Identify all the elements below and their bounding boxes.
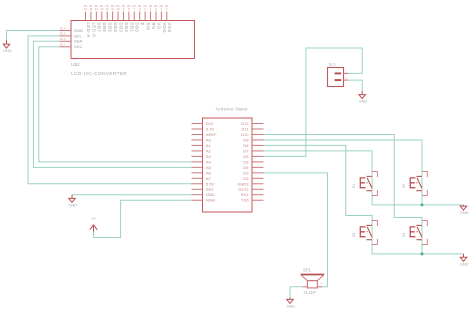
svg-text:5.5V: 5.5V xyxy=(206,181,215,186)
svg-text:D9: D9 xyxy=(243,137,249,142)
svg-text:GND: GND xyxy=(3,49,12,53)
svg-text:13: 13 xyxy=(100,7,103,11)
svg-text:DB2: DB2 xyxy=(124,23,129,33)
svg-text:DB7: DB7 xyxy=(97,23,102,33)
svg-text:D6: D6 xyxy=(243,154,249,159)
svg-text:GND: GND xyxy=(287,304,296,308)
svg-text:D13: D13 xyxy=(206,121,214,126)
svg-text:A5: A5 xyxy=(206,165,212,170)
svg-text:A7: A7 xyxy=(206,176,212,181)
svg-text:S3: S3 xyxy=(352,233,356,237)
svg-text:SDA: SDA xyxy=(74,39,83,44)
svg-text:A1: A1 xyxy=(206,143,212,148)
svg-text:VCC: VCC xyxy=(74,44,83,49)
svg-text:D1.1: D1.1 xyxy=(60,43,66,47)
svg-text:A0: A0 xyxy=(206,137,212,142)
svg-text:S2: S2 xyxy=(402,184,406,188)
svg-text:DB5: DB5 xyxy=(108,23,113,33)
svg-text:DB6: DB6 xyxy=(102,23,107,33)
svg-text:GND: GND xyxy=(460,262,469,266)
svg-text:D1.2: D1.2 xyxy=(60,37,66,41)
svg-text:GND: GND xyxy=(206,192,215,197)
svg-text:15: 15 xyxy=(89,7,92,11)
svg-text:GND: GND xyxy=(460,211,469,215)
svg-text:SP1: SP1 xyxy=(303,268,312,273)
svg-text:A6: A6 xyxy=(206,170,212,175)
svg-text:A2: A2 xyxy=(206,148,212,153)
svg-text:D8: D8 xyxy=(243,143,249,148)
svg-text:VO: VO xyxy=(156,23,161,30)
svg-text:RS: RS xyxy=(151,23,156,30)
svg-text:GND: GND xyxy=(359,100,368,104)
svg-text:VDD: VDD xyxy=(162,23,167,34)
svg-text:Arduino Nano: Arduino Nano xyxy=(216,106,248,111)
svg-text:V+: V+ xyxy=(91,217,97,221)
svg-text:RW: RW xyxy=(146,23,151,31)
svg-text:GND2: GND2 xyxy=(237,181,249,186)
svg-text:D7: D7 xyxy=(243,148,249,153)
svg-text:DB3: DB3 xyxy=(118,23,123,33)
svg-text:S4: S4 xyxy=(402,233,406,237)
svg-text:VSS: VSS xyxy=(167,23,172,33)
svg-text:SL1: SL1 xyxy=(329,62,337,67)
svg-text:D4: D4 xyxy=(243,165,249,170)
svg-text:A3: A3 xyxy=(206,154,212,159)
svg-text:DB0: DB0 xyxy=(135,23,140,33)
svg-text:D3: D3 xyxy=(243,170,249,175)
svg-text:3.3V: 3.3V xyxy=(206,126,215,131)
svg-text:RST: RST xyxy=(206,187,215,192)
svg-text:+: + xyxy=(320,282,322,286)
svg-text:D10: D10 xyxy=(241,132,249,137)
svg-text:TX0: TX0 xyxy=(241,198,249,203)
svg-text:D12: D12 xyxy=(241,121,249,126)
svg-text:12: 12 xyxy=(106,7,109,11)
svg-text:GND: GND xyxy=(69,203,78,207)
svg-text:RX1: RX1 xyxy=(241,192,250,197)
svg-text:DB1: DB1 xyxy=(129,23,134,33)
svg-text:AL11P: AL11P xyxy=(304,290,316,295)
svg-text:D5: D5 xyxy=(243,159,249,164)
svg-text:10: 10 xyxy=(117,7,120,11)
svg-text:AREF: AREF xyxy=(206,132,217,137)
svg-text:E: E xyxy=(140,23,145,26)
svg-text:A4: A4 xyxy=(206,159,212,164)
svg-text:D2: D2 xyxy=(243,176,249,181)
svg-text:LED-K: LED-K xyxy=(91,23,96,38)
svg-text:D11: D11 xyxy=(241,126,249,131)
svg-text:RAW: RAW xyxy=(206,198,215,203)
svg-text:SCL: SCL xyxy=(74,33,83,38)
svg-text:RST2: RST2 xyxy=(238,187,249,192)
svg-text:U$2: U$2 xyxy=(71,62,80,68)
svg-text:DB4: DB4 xyxy=(113,23,118,33)
svg-text:GND: GND xyxy=(74,28,83,33)
svg-text:16: 16 xyxy=(84,7,87,11)
svg-text:LCD-I2C-CONVERTER: LCD-I2C-CONVERTER xyxy=(71,71,127,77)
svg-text:14: 14 xyxy=(95,7,98,11)
svg-text:LED-A: LED-A xyxy=(86,23,91,38)
svg-text:D1.3: D1.3 xyxy=(60,32,66,36)
svg-text:S1: S1 xyxy=(352,184,356,188)
svg-text:D1.4: D1.4 xyxy=(60,26,66,30)
